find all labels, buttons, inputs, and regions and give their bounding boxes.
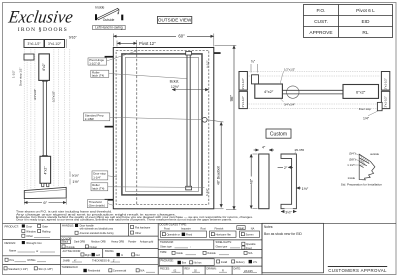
- handle subcol: [131, 225, 134, 228]
- glass option cells: [161, 231, 207, 237]
- svg-text:9/16″: 9/16″: [69, 36, 78, 40]
- strike side door stop square: [377, 102, 382, 110]
- label box door stop: [92, 171, 108, 180]
- svg-text:Wrought Iron: Wrought Iron: [26, 241, 42, 245]
- label box pivot hinge: [88, 58, 107, 65]
- svg-text:Glass type: Glass type: [160, 245, 172, 248]
- threshold 1-1/2" dim: [69, 179, 71, 185]
- pivot hinge markers left: [105, 56, 114, 58]
- svg-text:Hurricane film: Hurricane film: [216, 234, 231, 237]
- svg-text:P.O.: P.O.: [317, 8, 326, 14]
- svg-text:6″: 6″: [43, 200, 47, 205]
- backset dim line: [172, 89, 209, 91]
- svg-text:Pivot 12″: Pivot 12″: [139, 41, 156, 46]
- svg-text:Operable: Operable: [246, 243, 257, 246]
- svg-text:Inside: Inside: [95, 6, 104, 10]
- svg-text:PRODUCT:: PRODUCT:: [5, 224, 20, 228]
- svg-text:Antique gold: Antique gold: [140, 241, 154, 244]
- svg-text:ACTIVE DOOR: ACTIVE DOOR: [63, 249, 81, 253]
- svg-text:with sidewash and deadbolt pre: with sidewash and deadbolt prep: [80, 228, 114, 231]
- svg-text:Install: Install: [221, 261, 228, 264]
- svg-text:Door stop: Door stop: [359, 107, 372, 111]
- svg-text:Medium ORB: Medium ORB: [91, 241, 106, 244]
- svg-text:1½″: 1½″: [72, 180, 79, 184]
- leader standard prep: [110, 117, 203, 119]
- svg-text:Door: Door: [26, 224, 32, 228]
- svg-text:DOORS: DOORS: [43, 27, 68, 33]
- title block table: [304, 5, 393, 38]
- lock stile 6"x2" box: [343, 85, 379, 99]
- leader roller latch bottom: [108, 186, 205, 189]
- leader roller latch top: [109, 74, 187, 79]
- svg-text:1/4″: 1/4″: [363, 117, 370, 121]
- svg-text:1/2″x1/2″: 1/2″x1/2″: [51, 91, 55, 102]
- svg-text:Other: Other: [135, 232, 141, 235]
- svg-text:(See details): (See details): [89, 204, 105, 208]
- svg-text:Outset: Outset: [90, 246, 98, 249]
- svg-text:Standard (1 1/2″): Standard (1 1/2″): [8, 267, 28, 271]
- door slab plan lines: [282, 89, 343, 91]
- svg-text:Box as stock new for EID: Box as stock new for EID: [264, 232, 302, 236]
- svg-text:CUST.: CUST.: [314, 19, 328, 25]
- deadbolt circle: [202, 117, 207, 122]
- svg-text:OUTSIDE VIEW: OUTSIDE VIEW: [158, 18, 192, 23]
- svg-text:latch (T4): latch (T4): [92, 187, 104, 191]
- swing diagram: right jamb: [121, 15, 123, 21]
- svg-text:Rust: Rust: [201, 227, 206, 230]
- svg-text:1-1/4″: 1-1/4″: [93, 175, 101, 179]
- threshold 9/16" dim: [69, 172, 71, 178]
- door slab outline: [122, 54, 202, 195]
- svg-text:Outside: Outside: [66, 246, 75, 249]
- svg-text:6-1/2″: 6-1/2″: [205, 188, 209, 196]
- svg-text:Fixed: Fixed: [246, 247, 253, 250]
- svg-text:4″x2″: 4″x2″: [264, 89, 274, 94]
- OUTSIDE VIEW label box: [157, 17, 191, 24]
- svg-text:N/A: N/A: [248, 252, 253, 255]
- pull handle top cap: [186, 51, 192, 55]
- svg-text:TRIM:: TRIM:: [160, 250, 167, 254]
- profile hatching: [361, 155, 370, 165]
- svg-text:Pivot 6 L: Pivot 6 L: [356, 8, 375, 14]
- col dividers: [60, 223, 62, 274]
- label box roller latch bottom: [91, 183, 108, 191]
- handle bar: [259, 154, 269, 209]
- label box standard prep: [83, 113, 109, 121]
- svg-text:or: or: [36, 250, 38, 253]
- svg-text:3″x1-1/2″: 3″x1-1/2″: [28, 42, 42, 46]
- svg-text:Left: Left: [96, 254, 100, 257]
- Pcs / ROWs cell: [5, 258, 8, 261]
- dashed opening outline: [249, 72, 381, 109]
- pivot marker top right: [214, 52, 221, 54]
- svg-text:inside: inside: [348, 176, 356, 180]
- svg-text:THRESHOLD:: THRESHOLD:: [62, 265, 79, 269]
- svg-text:1-1/2″ Ø: 1-1/2″ Ø: [89, 61, 100, 65]
- svg-text:48″: 48″: [250, 178, 254, 184]
- svg-text:DRAWN:: DRAWN:: [207, 268, 217, 271]
- svg-text:3½″: 3½″: [285, 210, 292, 214]
- svg-text:(3/4″): (3/4″): [349, 152, 356, 156]
- svg-text:Flemish: Flemish: [215, 227, 224, 230]
- svg-text:Box: Box: [182, 262, 187, 265]
- door leaf section lines: [42, 80, 44, 156]
- svg-text:PIECES:: PIECES:: [160, 268, 170, 271]
- svg-text:Imposter: Imposter: [181, 227, 191, 230]
- swing diagram: door slab: [97, 8, 118, 19]
- svg-text:3″x1-1/2″: 3″x1-1/2″: [384, 78, 388, 89]
- Pivot 12" dimension: [117, 42, 137, 44]
- svg-text:CUSTOMERS APPROVAL: CUSTOMERS APPROVAL: [328, 268, 387, 273]
- svg-text:outside: outside: [370, 152, 379, 156]
- svg-text:RL: RL: [362, 30, 368, 36]
- svg-text:9/16″: 9/16″: [72, 173, 80, 177]
- svg-text:Left Hand In-swing: Left Hand In-swing: [95, 26, 123, 30]
- channel 2" dim: [278, 166, 283, 168]
- leader door stop bottom: [108, 176, 117, 177]
- sill 4"x2" box: [40, 156, 51, 183]
- leader pivot hinge: [107, 51, 137, 61]
- channel 3-1/2" dim: [281, 211, 296, 213]
- threshold 6" dim: [24, 202, 66, 204]
- svg-text:Slim (1 1/8″): Slim (1 1/8″): [39, 267, 53, 271]
- svg-text:LTL: LTL: [253, 261, 258, 264]
- 48" deadbolt dimension: [220, 122, 222, 208]
- svg-text:Notes:: Notes:: [264, 225, 273, 229]
- form top line: [3, 222, 397, 224]
- pull handle bar: [186, 54, 188, 189]
- svg-text:Once it is ready to go, agreed: Once it is ready to go, agreed to our te…: [16, 219, 232, 222]
- svg-text:Black: Black: [62, 241, 69, 244]
- head door stop small box: [24, 54, 34, 60]
- svg-text:Flat hardware: Flat hardware: [135, 226, 151, 229]
- door outer frame: [113, 48, 214, 209]
- handle 48" dim: [250, 154, 252, 209]
- left col rows: [3, 239, 61, 241]
- svg-text:ROWs: ROWs: [28, 258, 37, 262]
- svg-text:DATE:: DATE:: [234, 268, 241, 271]
- head box 3"x1-1/2" right: [45, 40, 65, 48]
- svg-text:Bckst.: Bckst.: [170, 80, 180, 84]
- svg-text:NA: NA: [251, 227, 255, 230]
- svg-text:60″: 60″: [178, 34, 185, 39]
- svg-text:Heavy ORB: Heavy ORB: [111, 241, 124, 244]
- svg-text:IRON: IRON: [18, 27, 36, 33]
- svg-text:Railing: Railing: [42, 229, 51, 233]
- svg-text:Delivery: Delivery: [236, 261, 246, 264]
- svg-text:Operable or: Operable or: [167, 234, 180, 237]
- svg-text:Std. Preparation for Installat: Std. Preparation for Installation: [341, 183, 383, 187]
- 9/16" dim: [65, 39, 67, 48]
- sill feet: [42, 183, 44, 186]
- hinge side door stop square: [252, 75, 259, 84]
- svg-text:Powder: Powder: [128, 241, 136, 244]
- construction dashed lines: [24, 49, 70, 189]
- svg-text:48″ Deadbolt: 48″ Deadbolt: [217, 166, 221, 185]
- svg-text:2-1/8Ø: 2-1/8Ø: [85, 117, 95, 121]
- 60" dimension: [113, 35, 214, 37]
- svg-text:Out: Out: [136, 254, 140, 257]
- svg-text:Inside: Inside: [176, 252, 183, 255]
- handle channel profile: [281, 154, 296, 209]
- svg-text:Fixed: Fixed: [186, 234, 193, 237]
- svg-text:Door handle: Door handle: [80, 224, 95, 228]
- door slab inner line: [125, 57, 198, 191]
- pivot axis dashed line: [136, 50, 138, 204]
- channel 1-1/2" dim: [296, 187, 301, 189]
- svg-text:Window: Window: [26, 229, 36, 233]
- svg-text:Any change once signed and sen: Any change once signed and sent to produ…: [16, 213, 177, 216]
- svg-text:Door stop 1/2″: Door stop 1/2″: [19, 68, 23, 86]
- svg-text:PACKAGE:: PACKAGE:: [161, 259, 174, 263]
- svg-text:96″: 96″: [229, 95, 234, 102]
- svg-text:Outside: Outside: [103, 18, 115, 22]
- svg-text:APPROVE: APPROVE: [309, 30, 332, 36]
- svg-text:Frost: Frost: [164, 227, 170, 230]
- label box roller latch top: [91, 70, 109, 77]
- svg-text:(5/8″): (5/8″): [349, 158, 356, 162]
- svg-text:THICKNESS-B: THICKNESS-B: [92, 258, 110, 262]
- svg-text:4″x2″: 4″x2″: [42, 62, 46, 71]
- svg-text:Ø1.655: Ø1.655: [295, 148, 305, 152]
- svg-text:Screen: Screen: [246, 234, 255, 237]
- svg-text:Other: Other: [26, 234, 33, 238]
- right section rows: [158, 239, 262, 241]
- PACKAGE row: [159, 259, 214, 266]
- Standard / Slim cell: [4, 267, 7, 270]
- svg-text:Dark ORB: Dark ORB: [74, 241, 85, 244]
- svg-text:Outside: Outside: [207, 252, 216, 255]
- 4" dim: [254, 149, 259, 151]
- svg-text:Clear: Clear: [238, 227, 244, 230]
- svg-text:Gate: Gate: [42, 224, 48, 228]
- svg-text:SWING: SWING: [105, 249, 114, 253]
- svg-text:4″x2″: 4″x2″: [43, 166, 47, 175]
- svg-text:Custom: Custom: [270, 132, 287, 138]
- svg-text:1-1/2″: 1-1/2″: [12, 70, 16, 78]
- svg-text:1½″: 1½″: [302, 187, 309, 191]
- frame inner dashed rect: [116, 50, 209, 204]
- pivot jamb 4"x2" box: [255, 84, 283, 98]
- svg-text:SIDELIGHTS:: SIDELIGHTS:: [216, 240, 232, 244]
- svg-text:Right: Right: [85, 254, 91, 257]
- svg-text:3″x1-1/2″: 3″x1-1/2″: [384, 96, 388, 107]
- svg-text:3″x1-1/2″: 3″x1-1/2″: [241, 96, 245, 107]
- svg-text:HANDLE:: HANDLE:: [62, 223, 74, 227]
- svg-text:3″x1-1/2″: 3″x1-1/2″: [48, 42, 62, 46]
- Custom box: [266, 129, 291, 138]
- svg-text:§: §: [38, 27, 41, 34]
- svg-text:DESIGN:: DESIGN:: [5, 241, 17, 245]
- svg-text:6-1/2″: 6-1/2″: [206, 60, 210, 68]
- svg-text:Name: Name: [9, 248, 17, 252]
- svg-text:Residential: Residential: [88, 270, 101, 273]
- svg-text:REV:: REV:: [185, 268, 191, 271]
- svg-text:Glass type: Glass type: [216, 245, 228, 248]
- svg-text:12½″: 12½″: [171, 85, 180, 89]
- svg-text:3/4″x3/4″: 3/4″x3/4″: [33, 89, 37, 100]
- svg-text:Commercial: Commercial: [113, 270, 127, 273]
- leader threshold: [108, 204, 114, 206]
- svg-text:Pcs: Pcs: [10, 258, 15, 262]
- svg-text:latch (T4): latch (T4): [92, 74, 104, 78]
- threshold wedge: [24, 187, 66, 198]
- svg-text:EID: EID: [362, 19, 371, 25]
- swing diagram: swing arrow: [117, 9, 120, 14]
- customers approval line: [328, 266, 387, 268]
- svg-text:6″x2″: 6″x2″: [356, 89, 366, 94]
- svg-text:¾″: ¾″: [251, 60, 256, 64]
- svg-text:3/4″x3/4″: 3/4″x3/4″: [284, 102, 295, 106]
- strike jamb 3"x1-1/2" boxes (stacked): [381, 72, 389, 91]
- swing diagram: left jamb: [95, 14, 97, 20]
- head box 3"x1-1/2" left: [24, 40, 44, 48]
- head jamb 4"x2" box: [39, 54, 50, 81]
- svg-text:1/2″x1/2″: 1/2″x1/2″: [284, 67, 295, 71]
- svg-text:No box: No box: [194, 262, 203, 265]
- svg-text:TRANSOM:: TRANSOM:: [160, 240, 174, 244]
- svg-text:DOOR GLASS TYPE:: DOOR GLASS TYPE:: [160, 223, 188, 227]
- 96" dimension: [233, 45, 235, 209]
- svg-text:1 1/2″: 1 1/2″: [347, 163, 354, 167]
- svg-text:Exclusive Iron Doors stands be: Exclusive Iron Doors stands behind the q…: [16, 216, 254, 219]
- svg-text:N/A: N/A: [140, 270, 145, 273]
- svg-text:↓: ↓: [190, 245, 191, 248]
- svg-text:JAMB: JAMB: [63, 258, 70, 262]
- svg-text:Exclusive: Exclusive: [6, 7, 74, 27]
- hinge jamb 3"x1-1/2" boxes (stacked): [239, 72, 247, 91]
- svg-text:American standard double borin: American standard double boring: [80, 232, 115, 235]
- mid col rows: [61, 235, 159, 237]
- notes box: [262, 223, 324, 272]
- pivot circle: [287, 86, 299, 98]
- pull handle bottom cap: [186, 186, 192, 190]
- swing diagram: Left Hand In-swing box: [93, 25, 126, 29]
- svg-text:3″x1-1/2″: 3″x1-1/2″: [241, 78, 245, 89]
- label box threshold: [87, 200, 107, 208]
- svg-text:Time shown on P.O. is unit siz: Time shown on P.O. is unit size includin…: [16, 211, 113, 214]
